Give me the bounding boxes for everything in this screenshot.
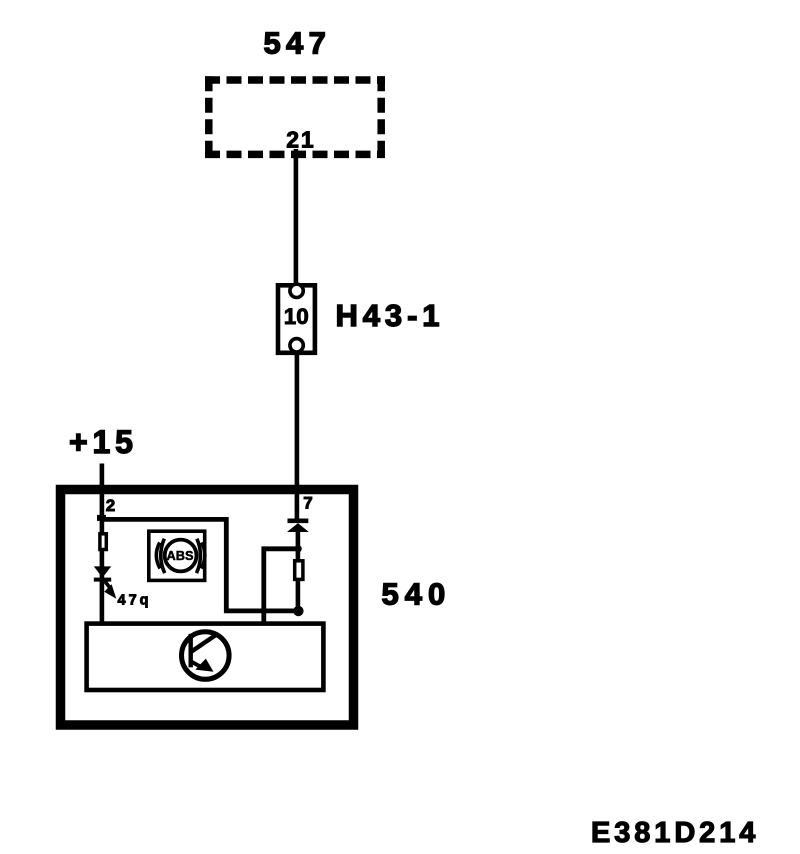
wire resistor to node B (296, 579, 301, 611)
diode D2 at pin 7 (pointing up) (287, 519, 309, 533)
svg-text:47q: 47q (118, 592, 152, 608)
wire pin2 branch: right, down, right to node B (100, 519, 296, 611)
svg-text:H43-1: H43-1 (336, 298, 445, 333)
wire H43-1 to box 540 pin 7 (295, 352, 300, 520)
fuse F on pin2 wire (100, 534, 106, 550)
svg-text:7: 7 (303, 494, 312, 513)
pump motor symbol (182, 632, 230, 680)
svg-text:540: 540 (382, 577, 452, 612)
box 540 outline (61, 490, 354, 726)
svg-text:10: 10 (284, 304, 309, 329)
svg-text:2: 2 (106, 496, 115, 515)
connector H43-1 (278, 284, 315, 353)
svg-text:+15: +15 (69, 424, 138, 460)
pump unit box (87, 624, 324, 690)
svg-text:547: 547 (264, 26, 332, 61)
wire diode D2 to node A (296, 530, 301, 560)
diode D1 on pin2 wire (pointing down) (94, 566, 111, 581)
svg-text:21: 21 (286, 127, 315, 153)
arrow to 47q (104, 580, 117, 599)
wire node A left and down to pump unit (264, 549, 298, 624)
pin circle top (290, 284, 303, 297)
ABS warning lamp (149, 531, 205, 580)
pin circle bottom (290, 339, 303, 352)
svg-text:ABS: ABS (166, 548, 193, 563)
wire 547 pin 21 to H43-1 pin 10 (294, 149, 299, 287)
component 547 (dashed box) (205, 76, 385, 158)
junction tick at pin 2 branch (97, 515, 106, 521)
node B junction dot (293, 606, 303, 616)
resistor R on pin7 branch (295, 561, 303, 580)
wire +15 to box 540 pin 2 and down to pump unit (100, 464, 105, 625)
node A junction dot (295, 545, 302, 552)
svg-text:E381D214: E381D214 (591, 817, 759, 849)
